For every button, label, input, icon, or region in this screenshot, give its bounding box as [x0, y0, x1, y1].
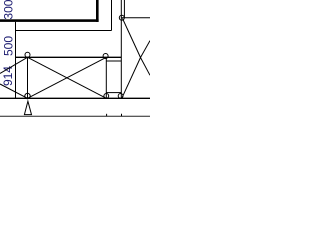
thin vertical V4 [111, 0, 113, 31]
top chord H3 [16, 56, 122, 58]
brace diagonal up-right [28, 57, 107, 98]
node circle C6 [103, 54, 108, 59]
left brace from top node [0, 57, 28, 73]
dimension line V1 [15, 22, 17, 98]
thick slab line H1 [0, 19, 99, 22]
node circle C4 [104, 94, 109, 99]
node circle C2 [119, 15, 124, 20]
right brace upper-right arm [141, 41, 151, 58]
thick column V3 [96, 0, 99, 22]
svg-text:300: 300 [2, 0, 16, 20]
ground tick T1 [106, 114, 108, 116]
left brace from bottom node [0, 84, 28, 98]
truss vertical V2 [27, 57, 29, 98]
bottom chord H7 [0, 97, 150, 99]
ground tick T2 [121, 114, 123, 116]
ground line H8 [0, 115, 150, 117]
node circle C3 [25, 93, 30, 98]
right brace upper-left arm [123, 19, 141, 58]
support triangle [24, 101, 31, 114]
column flange V8 [123, 0, 125, 18]
svg-text:500: 500 [2, 36, 16, 56]
node circle C5 [118, 94, 123, 99]
brace diagonal down-right [28, 57, 107, 98]
node circle C1 [25, 52, 30, 57]
right brace lower-left arm [122, 58, 141, 98]
background [0, 0, 150, 120]
thin horizontal H2 [16, 30, 112, 32]
column V5 [105, 57, 107, 98]
top-right beam H6 [121, 17, 150, 19]
right brace lower-right arm [141, 58, 151, 76]
rung H5 [106, 92, 121, 94]
rung H4 [106, 60, 121, 62]
long column V7 [120, 0, 122, 98]
